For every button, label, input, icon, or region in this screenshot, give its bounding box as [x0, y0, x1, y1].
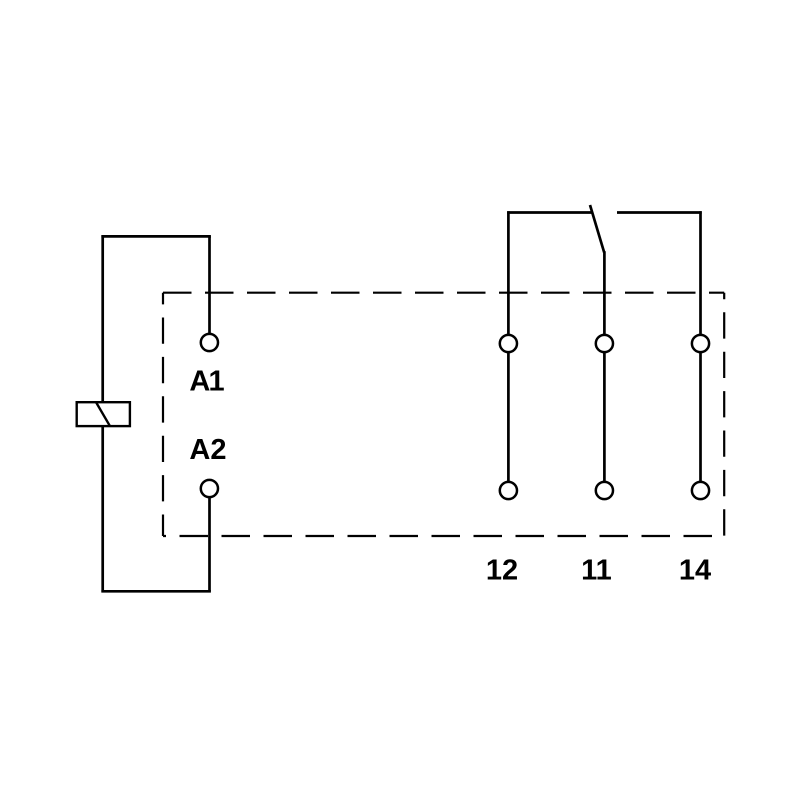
svg-text:A1: A1 — [189, 366, 224, 398]
terminal 11 upper circle — [596, 335, 613, 352]
wire: bottom horizontal of coil loop — [101, 590, 210, 593]
svg-text:11: 11 — [581, 555, 612, 587]
wire: column 12 between terminals — [507, 353, 510, 481]
wire: top line from switch gap to contact 14 — [617, 211, 702, 214]
terminal 12 upper circle — [500, 335, 517, 352]
module outline top edge (dashed) — [163, 292, 724, 294]
module outline right edge (dashed) — [723, 293, 725, 536]
wire: column 11 between terminals — [603, 353, 606, 481]
terminal 11 lower circle — [596, 482, 613, 499]
wire: column 14 upper — [699, 211, 702, 334]
svg-text:14: 14 — [679, 555, 711, 587]
terminal 12 lower circle — [500, 482, 517, 499]
terminal 14 lower circle — [692, 482, 709, 499]
wire: top line from contact 12 to switch — [507, 211, 592, 214]
svg-text:A2: A2 — [189, 434, 226, 466]
module outline left edge (dashed) — [162, 293, 164, 536]
terminal A1 circle — [201, 334, 218, 351]
wire: from terminal A2 down — [208, 498, 211, 592]
relay coil K1 diagonal slash — [96, 403, 110, 426]
wire: coil left vertical (top half) — [101, 235, 104, 402]
wire: top horizontal of coil loop — [101, 235, 210, 238]
terminal A2 circle — [201, 480, 218, 497]
module outline bottom edge (dashed) — [163, 535, 724, 537]
switch arm (NC changeover contact) — [590, 205, 604, 253]
wire: column 12 upper — [507, 211, 510, 334]
terminal 14 upper circle — [692, 335, 709, 352]
wire: coil left vertical (bottom half) — [101, 426, 104, 592]
svg-text:12: 12 — [486, 555, 518, 587]
relay coil K1 (rectangle) — [77, 402, 130, 426]
wire: drop to terminal A1 — [208, 236, 211, 333]
wire: column 11 upper (from switch arm) — [603, 251, 606, 334]
wire: column 14 between terminals — [699, 353, 702, 481]
